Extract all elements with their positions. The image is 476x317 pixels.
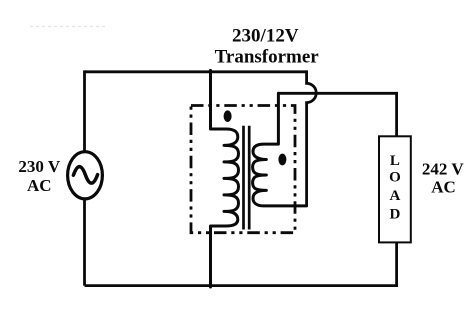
transformer T1 secondary winding (with top lead to load wire and bottom stub to hop wire) (253, 93, 307, 206)
svg-text:AC: AC (27, 176, 52, 195)
wire: top horizontal from source to hop corner (85, 70, 307, 73)
svg-text:L: L (390, 153, 400, 169)
transformer T1: core line left (242, 126, 245, 230)
svg-text:D: D (389, 206, 400, 222)
label: 230 V AC (source value) (18, 157, 60, 195)
source V1: sine symbol (73, 167, 97, 184)
load: rectangle body (379, 136, 411, 242)
faint scan artifact line, top left (30, 26, 106, 28)
transformer T1: core line right (248, 126, 251, 230)
svg-text:230 V: 230 V (18, 157, 60, 176)
wire: bottom horizontal from source to load (85, 284, 397, 287)
wire: load bottom vertical (395, 242, 398, 287)
transformer T1: phase dot, primary side (224, 110, 232, 122)
wire: load top horizontal (secondary top to load) (278, 93, 396, 136)
svg-text:230/12V: 230/12V (232, 26, 299, 47)
transformer T1: phase dot, secondary side (278, 154, 286, 166)
source V1: AC source ellipse (68, 152, 103, 199)
label: LOAD (vertical letters) (389, 153, 401, 222)
label: 242 V AC (load value) (422, 159, 464, 196)
transformer T1 primary winding (with top feed from top wire and bottom lead to bottom wire) (211, 70, 239, 287)
wire: left vertical, source top lead (83, 70, 86, 152)
svg-text:Transformer: Transformer (215, 47, 320, 68)
svg-text:242 V: 242 V (422, 159, 464, 178)
svg-text:A: A (389, 188, 400, 204)
wire: left vertical, source bottom lead (83, 199, 86, 286)
svg-text:O: O (389, 170, 401, 186)
transformer T1: dash-dot boundary box (191, 106, 295, 233)
label: circuit title "230/12V Transformer" (215, 26, 320, 68)
wire: crossover hop from top wire down to secondary bottom (307, 70, 317, 206)
svg-text:AC: AC (431, 178, 456, 197)
